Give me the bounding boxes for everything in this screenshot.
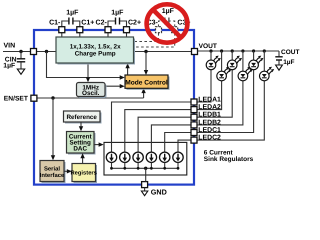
wire VIN internal to charge pump — [37, 51, 56, 53]
pad LEDA2 — [191, 107, 197, 113]
ground (CIN) — [17, 69, 24, 74]
svg-text:LEDB2: LEDB2 — [198, 119, 221, 126]
LED D2 — [217, 67, 232, 81]
block serial interface — [40, 161, 66, 184]
wire registers to DAC — [82, 156, 84, 164]
svg-text:LEDC2: LEDC2 — [198, 135, 221, 142]
ground (COUT) — [276, 65, 283, 70]
node rail taps — [209, 49, 266, 52]
svg-text:Reference: Reference — [66, 114, 97, 121]
pad C2- — [105, 27, 111, 33]
LED D5 — [249, 56, 264, 70]
arrowhead into Mode Control bottom — [141, 88, 145, 93]
wire oscillator to Mode Control — [105, 85, 122, 87]
wire reference to DAC — [80, 123, 82, 129]
block reference — [64, 111, 102, 124]
wire stub C2- to charge pump — [107, 33, 109, 38]
pad LEDB1 — [191, 114, 197, 120]
svg-text:C2-: C2- — [96, 19, 108, 26]
svg-text:VIN: VIN — [4, 42, 16, 49]
arrowhead into Mode Control top — [144, 70, 148, 75]
current sink I5 — [160, 152, 170, 162]
current sink I1 — [106, 152, 116, 162]
wire sink 3 to pad LEDB1 — [138, 117, 191, 152]
arrowhead into oscillator top — [86, 77, 90, 82]
wire sink bottoms to ground bus — [112, 163, 179, 169]
pad LEDC1 — [191, 130, 197, 136]
wire sink 2 to pad LEDA2 — [125, 110, 192, 153]
wire VIN lead — [3, 50, 31, 53]
current sink I6 — [173, 152, 183, 162]
wire VOUT external rail — [198, 50, 280, 52]
wire EN/SET down to Serial Interface — [52, 98, 54, 158]
wire EN/SET internal — [37, 97, 144, 99]
node VIN branch junction — [45, 50, 48, 53]
node bus junctions — [110, 167, 179, 170]
LED D4 — [238, 67, 253, 81]
wire VOUT sense to Mode Control top — [145, 52, 147, 73]
pad LEDC2 — [191, 137, 197, 143]
arrowhead into charge pump bottom — [125, 63, 129, 68]
arrowhead into Mode Control left (upper) — [120, 75, 125, 79]
current sink I2 — [120, 152, 130, 162]
wire ground bus to GND pad — [145, 168, 147, 181]
block U1a charge pump — [56, 37, 135, 65]
current sink I4 — [146, 152, 156, 162]
svg-text:1x,1.33x, 1.5x, 2x: 1x,1.33x, 1.5x, 2x — [70, 43, 121, 50]
svg-text:Mode Control: Mode Control — [125, 80, 168, 87]
wire sink 4 to pad LEDB2 — [151, 125, 191, 153]
wire sink 6 to pad LEDC2 — [178, 140, 192, 153]
wire LED string LEDA2 — [198, 51, 222, 110]
LED D3 — [227, 56, 242, 70]
current sink group box — [104, 142, 187, 175]
capacitor C2 — [108, 18, 127, 28]
pad LEDB2 — [191, 122, 197, 128]
svg-text:LEDA1: LEDA1 — [198, 97, 221, 104]
pad EN/SET — [31, 95, 37, 101]
pad C3+ (dashed) — [172, 27, 178, 33]
node ground junction — [144, 167, 147, 170]
svg-text:GND: GND — [151, 188, 167, 197]
ground (GND arrow) — [141, 191, 147, 196]
pad C2+ — [124, 27, 130, 33]
wire LED string LEDB2 — [198, 51, 243, 125]
svg-text:LEDC1: LEDC1 — [198, 127, 221, 134]
svg-text:VOUT: VOUT — [199, 43, 217, 50]
wire stub C1+ to charge pump — [79, 33, 81, 38]
capacitor C3 (dashed, not allowed) — [159, 18, 175, 28]
svg-text:DAC: DAC — [73, 146, 87, 153]
wire LED string LEDC1 — [198, 51, 254, 133]
pad VIN — [31, 49, 37, 55]
wire LED string LEDA1 — [198, 51, 212, 102]
prohibition symbol (red circle with slash over C3) — [147, 4, 188, 42]
wire stub C2+ to charge pump — [126, 33, 128, 38]
node VOUT sense junction — [144, 50, 147, 53]
wire EN/SET up to Mode Control bottom — [143, 91, 145, 98]
svg-text:LEDA2: LEDA2 — [198, 104, 221, 111]
LED D1 — [206, 56, 221, 70]
wire Mode Control to charge pump — [127, 66, 129, 75]
svg-text:C1-: C1- — [49, 19, 61, 26]
svg-text:Registers: Registers — [70, 170, 96, 177]
svg-text:Oscil.: Oscil. — [82, 90, 100, 97]
IC boundary U1 (blue outline) — [34, 30, 194, 185]
block mode control — [125, 75, 170, 90]
svg-text:Serial: Serial — [44, 165, 60, 172]
current sink I3 — [133, 152, 143, 162]
block current setting DAC — [67, 132, 96, 155]
block oscillator 1MHz — [77, 83, 107, 99]
wire LED string LEDB1 — [198, 51, 233, 117]
svg-text:C2+: C2+ — [128, 19, 141, 26]
arrowhead into sink group left — [99, 142, 104, 146]
pad LEDA1 — [191, 99, 197, 105]
node EN/SET junction — [51, 96, 54, 99]
svg-text:1µF: 1µF — [162, 8, 175, 15]
wire C3- dashed return — [134, 33, 159, 42]
svg-text:EN/SET: EN/SET — [4, 96, 29, 103]
wire GND stub below pad — [144, 188, 146, 192]
arrowhead into Serial Interface top — [51, 155, 55, 160]
svg-text:1µF: 1µF — [3, 62, 15, 69]
pad C1+ — [77, 27, 83, 33]
wire sink 1 to pad LEDA1 — [112, 102, 192, 153]
capacitor C1 — [62, 18, 80, 28]
LED D6 — [260, 67, 275, 81]
svg-text:LEDB1: LEDB1 — [198, 112, 221, 119]
wire charge pump to oscillator — [87, 63, 89, 80]
svg-text:1µF: 1µF — [283, 59, 294, 66]
wire VIN to Mode Control — [47, 52, 123, 78]
arrowhead into Mode Control left (lower) — [120, 84, 125, 88]
wire stub C1- to charge pump — [61, 33, 63, 38]
pad GND — [142, 182, 148, 188]
arrowhead into DAC top — [79, 126, 83, 131]
svg-text:COUT: COUT — [281, 49, 299, 56]
wire sink 5 to pad LEDC1 — [165, 133, 192, 153]
wire VOUT internal rail — [134, 51, 192, 53]
pad VOUT — [192, 49, 198, 55]
svg-text:Sink Regulators: Sink Regulators — [204, 156, 254, 163]
arrowhead into DAC bottom — [80, 153, 84, 158]
svg-text:Interface: Interface — [40, 172, 65, 179]
arrowhead into registers left — [67, 169, 72, 173]
svg-text:C1+: C1+ — [81, 19, 94, 26]
wire LED string LEDC2 — [198, 51, 265, 140]
svg-text:1µF: 1µF — [66, 9, 79, 16]
wire serial interface to registers — [64, 170, 69, 172]
capacitor CIN — [17, 52, 25, 70]
pad C3- (dashed) — [156, 27, 162, 33]
wire DAC to current sinks — [94, 144, 101, 146]
wire ground bus — [112, 167, 179, 169]
capacitor COUT — [275, 51, 282, 65]
pad C1- — [59, 27, 65, 33]
svg-text:1µF: 1µF — [111, 9, 124, 16]
block registers — [70, 164, 97, 184]
wire C3+ dashed return — [134, 33, 175, 47]
svg-text:Charge Pump: Charge Pump — [75, 51, 116, 58]
